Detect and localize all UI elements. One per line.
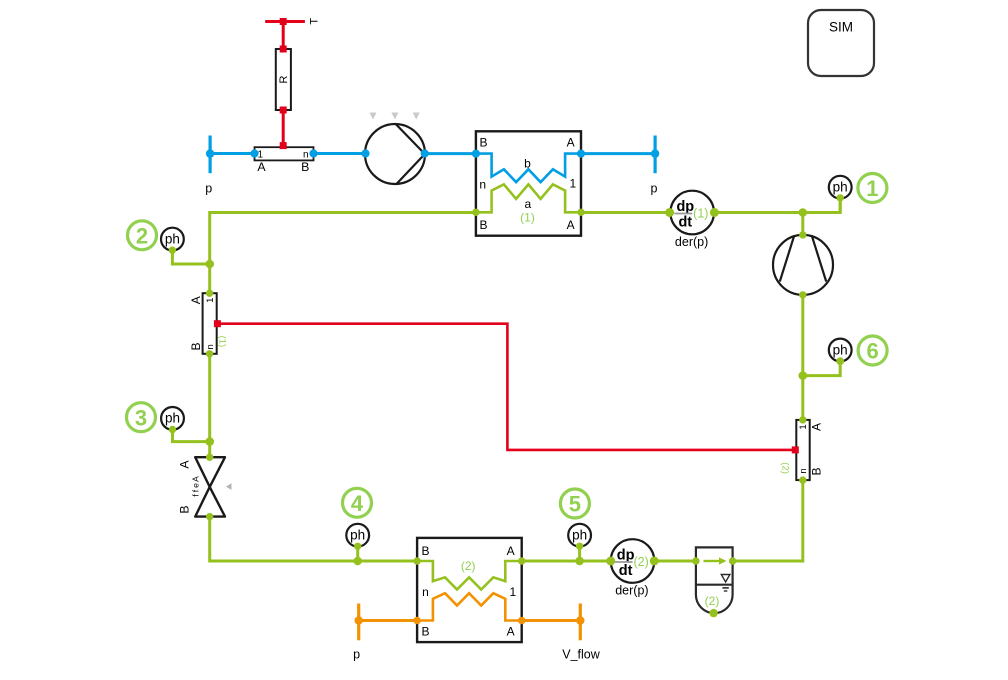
svg-text:1: 1: [569, 177, 576, 191]
wire green der2 to receiver: [655, 560, 696, 563]
wire green ph1 stub: [839, 198, 842, 213]
svg-text:B: B: [178, 505, 192, 513]
svg-text:1: 1: [205, 298, 216, 303]
wire green ph3 stub: [173, 430, 210, 442]
temperature source T terminal: [265, 18, 320, 25]
sensor ph 3: [161, 407, 184, 433]
wire orange HX2 to V_flow terminal: [522, 619, 581, 622]
pipe (1) vertical left: [189, 290, 228, 358]
pipe (2) vertical right: [780, 416, 824, 484]
svg-text:6: 6: [866, 339, 878, 364]
svg-text:f: f: [191, 489, 201, 492]
svg-text:a: a: [524, 197, 531, 211]
der(p) block (1): [665, 191, 719, 249]
pipe (blue, top horizontal): [250, 142, 317, 174]
wire orange p terminal to HX2: [359, 619, 417, 622]
wire blue left p to pipe: [209, 152, 254, 155]
marker 6: [858, 336, 887, 365]
svg-text:dt: dt: [678, 214, 692, 230]
pressure source p (blue left): [205, 136, 214, 196]
svg-text:1: 1: [866, 176, 878, 201]
svg-text:B: B: [479, 218, 487, 232]
svg-text:A: A: [507, 544, 515, 558]
svg-text:V_flow: V_flow: [562, 648, 600, 662]
svg-text:B: B: [421, 625, 429, 639]
svg-text:p: p: [353, 648, 360, 662]
svg-text:n: n: [798, 468, 809, 473]
svg-text:der(p): der(p): [615, 583, 648, 597]
pump P1 (blue circuit): [361, 124, 428, 184]
wire green der1 to ph1 corner: [714, 198, 840, 213]
wire green main loop top-left run: [210, 213, 476, 265]
wire green ph2 stub: [172, 250, 209, 264]
junction dot ph6 branch: [799, 371, 808, 380]
svg-text:n: n: [422, 585, 429, 599]
svg-text:SIM: SIM: [829, 20, 853, 35]
svg-text:(1): (1): [520, 211, 535, 225]
pump control arrows (gray): [370, 113, 420, 120]
svg-text:dt: dt: [619, 563, 633, 579]
heat exchanger HX2: [413, 538, 525, 642]
wire red T to resistor: [282, 22, 285, 50]
wire red resistor to pipe heat port: [282, 110, 285, 147]
svg-text:A: A: [567, 218, 575, 232]
marker 4: [343, 488, 372, 517]
svg-text:4: 4: [351, 491, 364, 516]
svg-text:A: A: [567, 136, 575, 150]
svg-text:(2): (2): [780, 462, 791, 474]
svg-text:n: n: [303, 150, 309, 161]
wire green pipe2 to compressor: [801, 295, 804, 420]
svg-text:ph: ph: [350, 528, 365, 543]
svg-text:A: A: [189, 296, 203, 304]
flow source V_flow (orange): [562, 604, 600, 662]
sensor ph 4: [346, 524, 369, 550]
svg-text:ph: ph: [833, 180, 848, 195]
svg-text:(2): (2): [633, 555, 648, 569]
svg-text:T: T: [309, 18, 321, 25]
wire blue pump to HX1: [425, 152, 476, 155]
junction dot ph4 branch: [353, 557, 362, 566]
svg-text:e: e: [191, 483, 201, 488]
svg-text:1: 1: [510, 585, 517, 599]
svg-text:(2): (2): [705, 594, 720, 608]
wire blue pipe to pump: [314, 152, 366, 155]
svg-text:(1): (1): [216, 336, 227, 348]
wire green left vertical run: [208, 264, 211, 457]
svg-text:A: A: [178, 460, 192, 469]
resistor R (thermal): [276, 46, 291, 114]
wire green ph5 stub: [578, 546, 581, 561]
svg-text:ph: ph: [165, 411, 180, 426]
svg-text:A: A: [191, 476, 201, 482]
svg-text:5: 5: [569, 492, 581, 517]
svg-text:f: f: [191, 494, 201, 497]
svg-text:A: A: [507, 625, 515, 639]
svg-text:n: n: [479, 178, 486, 192]
wire blue HX1 to right p terminal: [581, 152, 655, 155]
wire green ph4 stub: [356, 546, 359, 561]
svg-text:B: B: [421, 544, 429, 558]
pressure source p (blue right): [651, 136, 660, 196]
svg-text:R: R: [278, 75, 290, 83]
valve Aeff: [178, 454, 232, 521]
compressor (green circuit): [773, 231, 833, 298]
wire red pipe1 to pipe2 (heat connection): [219, 324, 795, 450]
junction dot ph2 branch: [205, 260, 214, 269]
junction dot ph3 branch: [205, 437, 214, 446]
pressure source p (orange): [353, 604, 363, 662]
wire green receiver to pipe2 riser: [733, 480, 803, 561]
svg-text:p: p: [205, 182, 212, 196]
wire green ph6 stub: [803, 361, 840, 376]
svg-text:B: B: [809, 467, 823, 475]
svg-text:der(p): der(p): [675, 235, 708, 249]
marker 2: [128, 221, 157, 250]
sensor ph 6: [829, 339, 852, 366]
svg-text:dp: dp: [617, 547, 635, 563]
svg-text:(2): (2): [461, 559, 476, 573]
junction dot ph5 branch: [575, 557, 584, 566]
sensor ph 1: [829, 176, 852, 202]
svg-text:A: A: [257, 160, 266, 174]
marker 1 (green circled number): [858, 174, 887, 203]
SIM activity indicator: [808, 10, 874, 76]
svg-text:A: A: [809, 423, 823, 431]
svg-text:ph: ph: [833, 342, 848, 357]
der(p) block (2): [606, 539, 659, 597]
svg-text:(1): (1): [693, 207, 708, 221]
junction dot top line / compressor branch: [799, 208, 808, 217]
svg-text:p: p: [651, 182, 658, 196]
sensor ph 5: [568, 524, 591, 550]
marker 3: [127, 403, 156, 432]
wire green valve to HX2: [210, 517, 417, 561]
svg-text:1: 1: [798, 424, 809, 429]
wire green compressor to top corner: [801, 213, 804, 235]
svg-text:ph: ph: [572, 528, 587, 543]
svg-text:B: B: [479, 136, 487, 150]
wire green HX2 to der2: [522, 560, 611, 563]
heat exchanger HX1: [472, 131, 585, 235]
svg-text:b: b: [524, 157, 531, 171]
svg-text:B: B: [189, 342, 203, 350]
svg-text:ph: ph: [165, 231, 180, 246]
svg-text:dp: dp: [676, 199, 694, 215]
wire green HX1 to compressor branch: [581, 211, 803, 214]
svg-text:2: 2: [136, 224, 148, 249]
svg-text:3: 3: [135, 405, 147, 430]
sensor ph 2: [161, 228, 184, 254]
receiver tank (2): [692, 547, 736, 617]
svg-text:B: B: [301, 160, 309, 174]
svg-text:1: 1: [258, 150, 264, 161]
marker 5: [560, 489, 589, 518]
svg-text:n: n: [205, 344, 216, 349]
